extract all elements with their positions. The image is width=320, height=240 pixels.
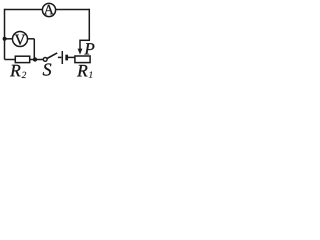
resistor R2 box (15, 56, 29, 62)
wire left vertical (4, 9, 6, 60)
wire voltmeter right (28, 38, 35, 40)
wire top-left (5, 9, 43, 11)
label P (84, 43, 94, 54)
wire switch to battery (58, 56, 62, 58)
wire R2 right to junction (30, 59, 44, 61)
wire top-right (56, 9, 90, 11)
wire bottom-left (5, 59, 16, 61)
wire voltmeter tap left (5, 38, 13, 40)
label R1 subscript 1 (89, 72, 92, 78)
node junction on left wire (voltmeter tap) (3, 37, 7, 41)
ammeter circle (42, 3, 55, 16)
label R2 letter R (10, 65, 20, 76)
rheostat R1 box (75, 56, 90, 63)
voltmeter letter V (15, 35, 26, 45)
wire slider arrow shaft (79, 40, 81, 50)
battery short thick plate (65, 55, 68, 61)
node junction bottom (R2 / switch / voltmeter) (33, 57, 37, 61)
wire battery to R1 (68, 56, 75, 58)
voltmeter circle (13, 32, 28, 47)
switch S pivot contact circle (43, 58, 47, 62)
battery long thin plate (61, 51, 63, 64)
switch S blade (47, 53, 57, 59)
label R1 letter R (77, 65, 87, 76)
ammeter letter A (44, 5, 54, 14)
label S (43, 63, 51, 75)
label R2 subscript 2 (22, 72, 27, 78)
wire right vertical (88, 9, 90, 41)
rheostat slider arrowhead (78, 49, 83, 55)
wire voltmeter down to junction (33, 39, 35, 60)
wire to slider arrow (80, 39, 90, 41)
